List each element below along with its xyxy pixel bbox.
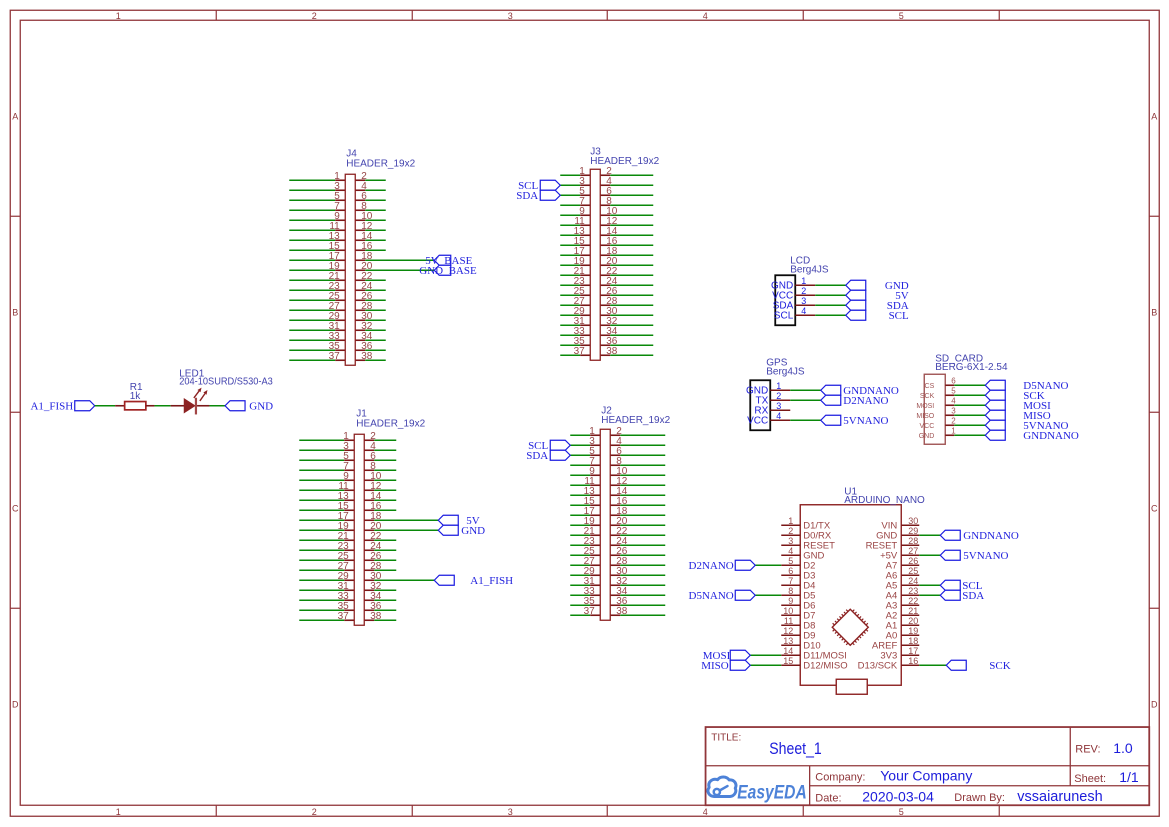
svg-text:A1_FISH: A1_FISH bbox=[470, 575, 513, 587]
svg-text:HEADER_19x2: HEADER_19x2 bbox=[590, 156, 659, 167]
svg-text:14: 14 bbox=[783, 646, 793, 656]
svg-text:GNDNANO: GNDNANO bbox=[963, 530, 1019, 542]
svg-text:3: 3 bbox=[508, 807, 513, 817]
svg-text:13: 13 bbox=[783, 636, 793, 646]
svg-text:GND: GND bbox=[461, 525, 485, 537]
svg-text:SDA: SDA bbox=[526, 450, 548, 462]
svg-text:D: D bbox=[1151, 699, 1158, 709]
svg-text:16: 16 bbox=[908, 656, 918, 666]
svg-text:D12/MISO: D12/MISO bbox=[803, 660, 847, 671]
svg-text:3: 3 bbox=[951, 406, 956, 415]
svg-text:1: 1 bbox=[788, 516, 793, 526]
svg-text:5: 5 bbox=[951, 386, 956, 395]
svg-text:2: 2 bbox=[312, 807, 317, 817]
svg-text:1: 1 bbox=[776, 381, 781, 391]
svg-text:SCK: SCK bbox=[920, 393, 935, 400]
svg-text:3: 3 bbox=[788, 536, 793, 546]
svg-text:TITLE:: TITLE: bbox=[711, 732, 741, 743]
svg-text:1k: 1k bbox=[130, 391, 142, 402]
svg-text:BERG-6X1-2.54: BERG-6X1-2.54 bbox=[935, 362, 1008, 373]
svg-text:1: 1 bbox=[801, 276, 806, 286]
svg-text:REV:: REV: bbox=[1075, 743, 1100, 755]
svg-text:25: 25 bbox=[908, 566, 918, 576]
svg-text:5VNANO: 5VNANO bbox=[843, 415, 888, 427]
svg-text:27: 27 bbox=[908, 546, 918, 556]
svg-text:1: 1 bbox=[116, 807, 121, 817]
svg-text:MISO: MISO bbox=[701, 660, 729, 672]
svg-text:10: 10 bbox=[783, 606, 793, 616]
svg-text:23: 23 bbox=[908, 586, 918, 596]
svg-text:A: A bbox=[12, 111, 18, 121]
svg-text:A1_FISH: A1_FISH bbox=[30, 400, 73, 412]
svg-text:1/1: 1/1 bbox=[1119, 769, 1139, 785]
svg-text:D13/SCK: D13/SCK bbox=[858, 660, 898, 671]
svg-text:1.0: 1.0 bbox=[1113, 740, 1133, 756]
svg-text:2: 2 bbox=[312, 11, 317, 21]
svg-text:18: 18 bbox=[908, 636, 918, 646]
svg-text:D: D bbox=[12, 699, 19, 709]
svg-text:20: 20 bbox=[908, 616, 918, 626]
svg-text:2: 2 bbox=[788, 526, 793, 536]
svg-text:37: 37 bbox=[584, 606, 596, 617]
svg-text:HEADER_19x2: HEADER_19x2 bbox=[346, 158, 415, 169]
svg-text:6: 6 bbox=[788, 566, 793, 576]
svg-text:SCL: SCL bbox=[889, 310, 909, 322]
svg-text:3: 3 bbox=[801, 296, 806, 306]
svg-text:SCK: SCK bbox=[989, 660, 1010, 672]
svg-text:ARDUINO_NANO: ARDUINO_NANO bbox=[844, 495, 925, 506]
svg-text:29: 29 bbox=[908, 526, 918, 536]
svg-text:9: 9 bbox=[788, 596, 793, 606]
svg-text:26: 26 bbox=[908, 556, 918, 566]
svg-text:Berg4JS: Berg4JS bbox=[790, 264, 829, 275]
svg-text:7: 7 bbox=[788, 576, 793, 586]
svg-text:5: 5 bbox=[899, 807, 904, 817]
svg-text:204-10SURD/S530-A3: 204-10SURD/S530-A3 bbox=[179, 377, 273, 388]
svg-text:28: 28 bbox=[908, 536, 918, 546]
svg-text:SDA: SDA bbox=[516, 190, 538, 202]
svg-text:30: 30 bbox=[908, 516, 918, 526]
svg-text:17: 17 bbox=[908, 646, 918, 656]
svg-text:3: 3 bbox=[508, 11, 513, 21]
svg-text:4: 4 bbox=[776, 411, 781, 421]
svg-text:D5NANO: D5NANO bbox=[689, 590, 734, 602]
svg-text:B: B bbox=[12, 307, 18, 317]
svg-text:Drawn By:: Drawn By: bbox=[954, 792, 1005, 804]
svg-text:19: 19 bbox=[908, 626, 918, 636]
svg-text:12: 12 bbox=[783, 626, 793, 636]
svg-text:38: 38 bbox=[370, 611, 382, 622]
svg-text:2020-03-04: 2020-03-04 bbox=[862, 788, 934, 804]
svg-text:4: 4 bbox=[951, 396, 956, 405]
svg-text:15: 15 bbox=[783, 656, 793, 666]
svg-text:24: 24 bbox=[908, 576, 918, 586]
svg-text:Your Company: Your Company bbox=[880, 767, 972, 783]
svg-text:22: 22 bbox=[908, 596, 918, 606]
svg-text:1: 1 bbox=[951, 426, 956, 435]
svg-text:2: 2 bbox=[801, 286, 806, 296]
svg-text:SCL: SCL bbox=[774, 310, 794, 321]
svg-text:21: 21 bbox=[908, 606, 918, 616]
svg-text:GNDNANO: GNDNANO bbox=[1023, 430, 1079, 442]
svg-text:vssaiarunesh: vssaiarunesh bbox=[1017, 789, 1102, 805]
svg-text:2: 2 bbox=[776, 391, 781, 401]
svg-text:Date:: Date: bbox=[815, 792, 841, 804]
svg-text:37: 37 bbox=[329, 351, 341, 362]
svg-text:D2NANO: D2NANO bbox=[689, 560, 734, 572]
svg-text:4: 4 bbox=[703, 807, 708, 817]
svg-text:A: A bbox=[1151, 111, 1157, 121]
svg-text:Sheet_1: Sheet_1 bbox=[769, 740, 822, 758]
svg-text:VCC: VCC bbox=[747, 415, 768, 426]
svg-text:5: 5 bbox=[899, 11, 904, 21]
svg-text:37: 37 bbox=[338, 611, 350, 622]
svg-text:Company:: Company: bbox=[815, 771, 865, 783]
svg-text:B: B bbox=[1151, 307, 1157, 317]
svg-text:38: 38 bbox=[616, 606, 628, 617]
svg-text:D2NANO: D2NANO bbox=[843, 395, 888, 407]
svg-text:6: 6 bbox=[951, 376, 956, 385]
svg-text:38: 38 bbox=[361, 351, 373, 362]
svg-text:2: 2 bbox=[951, 416, 956, 425]
svg-text:SDA: SDA bbox=[962, 590, 984, 602]
svg-text:4: 4 bbox=[703, 11, 708, 21]
svg-text:MOSI: MOSI bbox=[916, 403, 934, 410]
svg-text:4: 4 bbox=[788, 546, 793, 556]
svg-text:GND: GND bbox=[249, 400, 273, 412]
svg-text:VCC: VCC bbox=[919, 423, 934, 430]
svg-text:3: 3 bbox=[776, 401, 781, 411]
svg-text:MISO: MISO bbox=[916, 413, 934, 420]
svg-text:38: 38 bbox=[606, 346, 618, 357]
svg-text:Sheet:: Sheet: bbox=[1074, 773, 1106, 785]
svg-text:5: 5 bbox=[788, 556, 793, 566]
svg-text:8: 8 bbox=[788, 586, 793, 596]
svg-text:EasyEDA: EasyEDA bbox=[737, 781, 807, 803]
svg-text:GND_BASE: GND_BASE bbox=[419, 265, 477, 277]
svg-text:C: C bbox=[12, 503, 19, 513]
svg-text:5VNANO: 5VNANO bbox=[963, 550, 1008, 562]
svg-text:1: 1 bbox=[116, 11, 121, 21]
svg-text:37: 37 bbox=[574, 346, 586, 357]
svg-text:GND: GND bbox=[919, 433, 935, 440]
svg-text:Berg4JS: Berg4JS bbox=[766, 366, 805, 377]
svg-text:11: 11 bbox=[784, 616, 793, 626]
svg-text:4: 4 bbox=[801, 306, 806, 316]
svg-text:HEADER_19x2: HEADER_19x2 bbox=[601, 415, 670, 426]
svg-text:HEADER_19x2: HEADER_19x2 bbox=[356, 418, 425, 429]
svg-text:C: C bbox=[1151, 503, 1158, 513]
svg-text:CS: CS bbox=[925, 383, 935, 390]
